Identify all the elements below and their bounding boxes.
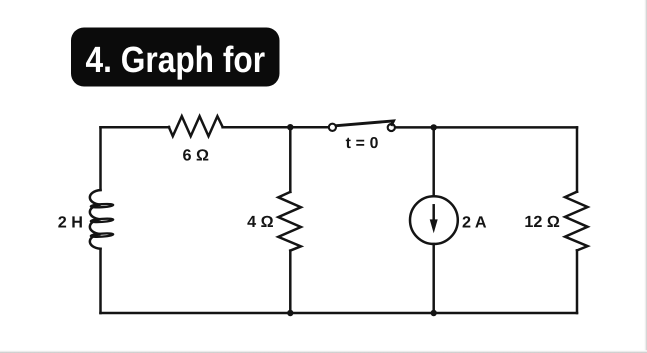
node dot top at 4 ohm branch	[287, 124, 293, 130]
svg-text:6 Ω: 6 Ω	[183, 146, 210, 164]
wire top between switch and node B	[395, 126, 433, 129]
resistor R3 12 ohm zigzag	[565, 192, 588, 251]
title label "4. Graph for"	[71, 28, 280, 87]
inductor L1 2 H coil humps	[90, 190, 101, 249]
switch t=0 left contact	[329, 124, 336, 131]
wire top between node B and right corner	[434, 126, 577, 129]
wire top-left horizontal	[101, 126, 170, 129]
resistor R1 6 ohm zigzag	[169, 116, 223, 136]
wire left vertical below inductor	[99, 249, 102, 313]
svg-text:4 Ω: 4 Ω	[247, 213, 274, 231]
svg-text:2 A: 2 A	[462, 214, 487, 232]
current source I1 arrow shaft	[432, 205, 435, 221]
wire right vertical above 12 ohm	[576, 127, 579, 191]
svg-text:2 H: 2 H	[58, 214, 83, 232]
wire source branch below circle	[432, 244, 435, 313]
svg-text:4. Graph for: 4. Graph for	[86, 39, 266, 80]
current source I1 circle	[410, 196, 458, 244]
svg-text:12 Ω: 12 Ω	[524, 213, 560, 231]
resistor R2 4 ohm zigzag	[278, 192, 301, 251]
wire top between resistor and switch	[223, 126, 329, 129]
current source I1 arrow head	[430, 219, 438, 233]
inductor L1 loop ellipse 1	[91, 203, 114, 208]
inductor L1 loop ellipse 2	[91, 218, 114, 223]
wire right vertical below 12 ohm	[576, 250, 579, 313]
node dot top at source branch	[431, 124, 437, 130]
node dot bottom at source branch	[431, 310, 437, 316]
switch t=0 right contact	[388, 124, 395, 131]
wire left vertical above inductor	[99, 127, 102, 190]
node dot bottom at 4 ohm branch	[287, 310, 293, 316]
switch t=0 lever blade	[336, 121, 393, 126]
wire middle branch above 4 ohm	[289, 127, 292, 192]
svg-text:t = 0: t = 0	[346, 135, 379, 152]
wire bottom horizontal	[101, 312, 578, 315]
wire middle branch below 4 ohm	[289, 251, 292, 313]
inductor L1 loop ellipse 3	[91, 233, 114, 238]
wire source branch above circle	[432, 127, 435, 196]
